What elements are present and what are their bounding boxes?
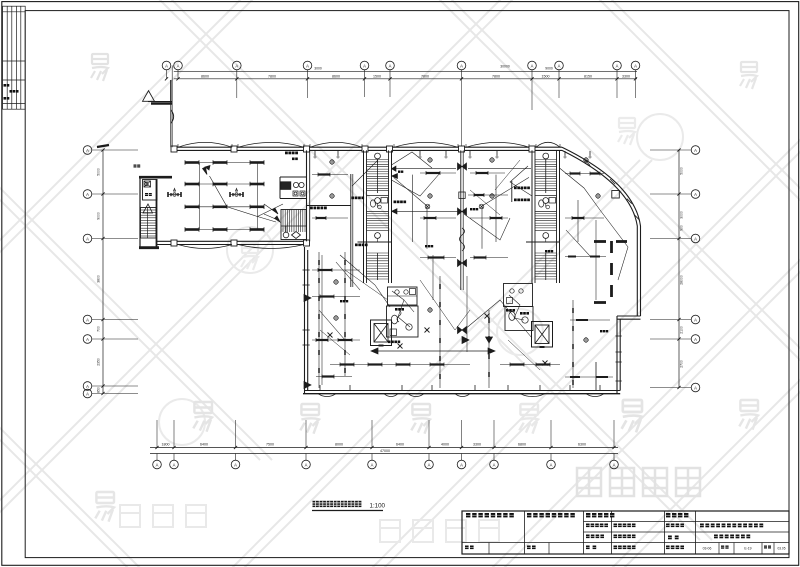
svg-text:A: A [616,63,619,68]
svg-text:A: A [86,236,89,241]
svg-text:3800: 3800 [97,275,101,283]
wiring row u4 mid [565,217,604,219]
junction box x462 [459,192,465,198]
svg-text:A: A [234,462,237,467]
svg-text:8000: 8000 [335,443,343,447]
right wall jog [617,315,641,317]
svg-text:A: A [694,236,697,241]
diagonal wires upper units [392,152,433,168]
unit3 mirrored wires [468,168,531,170]
label near S1 [352,197,355,200]
header4 [666,513,670,517]
stairwell S2 handrail lamps [543,153,549,159]
svg-text:03-06: 03-06 [703,547,712,551]
svg-text:A: A [177,63,180,68]
svg-text:A: A [460,63,463,68]
XPDN label [285,152,288,155]
lower labels [388,341,391,344]
svg-text:A: A [460,462,463,467]
wiring row u2 low [420,257,456,259]
curve tick marks [585,160,590,165]
right room wiring rows [565,256,606,258]
unit2 wall arrows [392,174,398,179]
svg-text:3300: 3300 [622,75,630,79]
right dimension line [678,150,680,388]
row2 left [586,524,590,528]
svg-text:8600: 8600 [332,75,340,79]
unit2 vertical wires [412,175,414,242]
svg-text:7800: 7800 [268,75,276,79]
entry wall vertical [170,80,172,103]
stairwell S1 handrail lamps [375,153,381,159]
wiring row u4 top [565,173,604,175]
annex top wall [139,176,172,179]
garage stair [281,210,307,240]
svg-text:8600: 8600 [201,75,209,79]
svg-text:5000: 5000 [680,167,684,175]
partition wall x462 [460,150,462,290]
unit2 diagonal to lamp [394,177,427,206]
wall column bump [171,110,174,124]
annex bottom wall [139,246,159,249]
svg-text:A: A [86,192,89,197]
left lower exterior wall [304,247,306,394]
svg-text:A: A [173,462,176,467]
stairwell S2 bathroom fixtures [539,200,544,207]
extra tiny labels [470,208,472,210]
svg-text:1500: 1500 [542,75,550,79]
svg-text:7800: 7800 [492,75,500,79]
unit2 long wire y168.7 [392,168,457,170]
header1 [466,513,470,517]
wiring row L5 [500,364,560,366]
title block frame [462,511,789,554]
bottom exterior wall [305,390,621,392]
partition wall x512 short [511,181,513,202]
elevator E1 [371,320,392,346]
squiggle pipe [397,310,401,322]
bottom wall window marks [318,394,336,397]
stairwell S2 flight A treads [535,159,557,161]
wiring row u2 top [420,172,456,174]
feeder arrows [273,208,279,214]
stairwell S1 corridor line [358,241,392,243]
svg-text:A: A [428,462,431,467]
svg-text:A: A [694,317,697,322]
stairwell S1 landing [367,195,389,197]
svg-text:6800: 6800 [518,443,526,447]
annex stair [141,208,157,239]
svg-text:6400: 6400 [396,443,404,447]
project name [700,524,704,528]
svg-text:1800: 1800 [162,443,170,447]
partition bowties x462 [458,163,463,170]
right axis extension lines [650,149,691,151]
fan symbols row [168,194,182,196]
svg-text:2700: 2700 [680,360,684,368]
svg-text:3300: 3300 [473,443,481,447]
svg-text:4000: 4000 [441,443,449,447]
stairwell S2 walls [531,150,533,283]
hall wiring diagonals [210,176,277,222]
row2 mid [614,524,618,528]
arrow [203,167,208,175]
svg-text:A: A [694,192,697,197]
annex left wall [139,177,141,249]
right wall window ticks [616,335,622,337]
svg-text:A: A [86,384,89,389]
stairwell S1 bathroom fixtures [370,200,375,207]
title block sub verticals bottom row [718,543,720,555]
svg-text:9000: 9000 [545,67,553,71]
unit1 bath rooms [388,287,418,305]
wiring risers vertical [318,252,320,388]
svg-text:A: A [363,63,366,68]
LB label [145,193,148,196]
header2 [527,513,531,517]
wiring row L6 [316,376,352,378]
unit2 long wire y211.3 [392,210,461,212]
header3 [586,513,590,517]
strip label text [4,84,7,87]
lower middle extra wiring [345,270,388,300]
svg-text:5000: 5000 [97,168,101,176]
stairwell S2 landing [535,195,557,197]
socket ticks along bottom wall [319,385,321,390]
svg-text:3000: 3000 [680,211,684,219]
svg-text:E-19: E-19 [744,547,751,551]
svg-text:A: A [389,63,392,68]
svg-text:A: A [305,462,308,467]
svg-text:7800: 7800 [421,75,429,79]
svg-text:1:100: 1:100 [370,502,386,509]
dark panel box [281,182,291,190]
wiring row u3 low [470,257,508,259]
svg-text:A: A [86,391,89,396]
svg-text:900: 900 [680,225,684,231]
lamp circles in rooms [330,160,334,164]
label xx [398,171,400,173]
svg-text:A: A [694,385,697,390]
stairwell S2 flight B treads [535,213,557,215]
partition wall y206 [307,205,352,207]
stair lamp [283,232,289,238]
svg-text:2100: 2100 [680,326,684,334]
svg-text:A: A [531,63,534,68]
dashed partition verticals [610,241,613,253]
wiring row L4 [330,364,420,366]
svg-text:A: A [306,63,309,68]
unit4 vertical wires [577,200,579,242]
switch ticks along top wall [314,151,316,156]
bottom right room partition [595,362,597,390]
x-marks [398,344,403,349]
left axis grid circles [83,146,92,155]
wiring row L1 [312,269,360,271]
wiring row u3 x195 [468,194,508,196]
top dimension lines [174,70,637,72]
stairwell S1 walls [363,150,365,283]
left lower wall window ticks [303,269,310,271]
stairwell S2 corridor line [526,241,560,243]
stairwell S1 flight A treads [367,159,389,161]
right exterior wall [616,316,618,394]
curved corner wall [562,147,641,316]
svg-text:A: A [86,317,89,322]
svg-text:A: A [613,462,616,467]
bay window arcs top [178,142,232,147]
small square window right room [612,191,620,199]
title block verticals [524,511,526,554]
stairwell S2 flight C treads [535,252,557,254]
lower unit1 extra wires [321,255,323,385]
wall arrows lower left [304,295,311,302]
toilet fixtures [293,182,298,187]
bottom axis grid circles [153,460,162,469]
svg-text:A: A [550,462,553,467]
toilet room wall [279,177,281,199]
garage right wall [306,150,308,241]
fluorescent fixture rows [185,162,264,164]
wiring row u3 top [470,172,505,174]
right axis grid circles [691,146,700,155]
annex inner wall [156,179,158,249]
svg-text:A: A [371,462,374,467]
svg-text:A: A [694,148,697,153]
label 1.6kW [310,207,313,210]
wiring row L4b [420,364,470,366]
arrow [205,166,210,171]
svg-text:700: 700 [97,326,101,332]
svg-text:A: A [165,63,168,68]
title underline [312,510,383,512]
hall wiring verticals [199,163,201,230]
svg-text:A: A [156,462,159,467]
wiring row L2 [312,296,360,298]
long wiring line y351 [374,350,492,352]
stairwell S1 flight B treads [367,213,389,215]
svg-text:A: A [235,63,238,68]
svg-text:8150: 8150 [584,75,592,79]
drawing name [714,535,718,539]
wiring row L3 [312,339,360,341]
svg-text:A: A [694,337,697,342]
svg-text:A: A [86,148,89,153]
bottom labels [666,546,670,550]
label 1.6kW b [514,199,517,202]
svg-text:A: A [86,337,89,342]
unit3 extra wiring [470,190,500,215]
hall bottom wall [157,240,309,242]
stairwell S1 flight C treads [367,252,389,254]
top axis grid circles [162,61,171,70]
unit2 bath labels [506,309,509,312]
revision strip table [3,6,26,109]
wiring row u2 mid [420,217,456,219]
top exterior wall [171,146,562,148]
hall bottom wall columns [171,240,177,246]
svg-text:03.05: 03.05 [778,547,786,551]
svg-text:28000: 28000 [680,275,684,285]
svg-text:850: 850 [97,387,101,393]
svg-text:9000: 9000 [97,212,101,220]
wiring row u1 top [312,174,348,176]
top wall columns [171,146,177,152]
bottom axis extension lines [156,420,158,448]
wiring row u3 mid [470,217,508,219]
svg-text:7500: 7500 [266,443,274,447]
unit2 bath rooms [504,284,533,307]
row2 right [666,524,670,528]
svg-text:6400: 6400 [200,443,208,447]
label 1.6kW a [514,187,517,190]
title block rows [584,521,790,523]
svg-text:1500: 1500 [373,75,381,79]
watermark rings [227,227,273,273]
bay window arcs hall bottom [178,245,232,249]
watermark big text [577,468,700,496]
wiring row u1 mid [312,217,348,219]
stair arrow diamond [292,232,301,239]
elevator E2 [532,322,553,348]
entry door triangle [143,91,155,102]
entry canopy wall [148,101,172,103]
LB distribution box [143,180,158,201]
svg-text:30000: 30000 [500,65,510,69]
bottom dimension lines [150,447,618,449]
svg-text:3000: 3000 [314,67,322,71]
unit1 bath wiring [392,291,410,327]
svg-text:A: A [634,63,637,68]
XB label [134,165,137,168]
stair up arrow [143,204,153,213]
watermark glyphs [91,54,108,81]
drawing title blocks [313,501,319,507]
svg-text:47000: 47000 [380,449,390,453]
flex conduit squiggle [460,228,465,251]
right room diagonal wires [600,210,628,280]
dashed partition horizontals [594,240,606,243]
svg-text:A: A [493,462,496,467]
unit2 lamp [425,204,430,209]
svg-text:6300: 6300 [578,443,586,447]
svg-text:A: A [558,63,561,68]
left tick mark [97,145,109,147]
top axis extension lines [236,79,238,98]
left dimension line [102,150,104,394]
left axis extension lines [92,149,138,151]
svg-text:2350: 2350 [97,358,101,366]
partition wall x351 [350,174,352,287]
